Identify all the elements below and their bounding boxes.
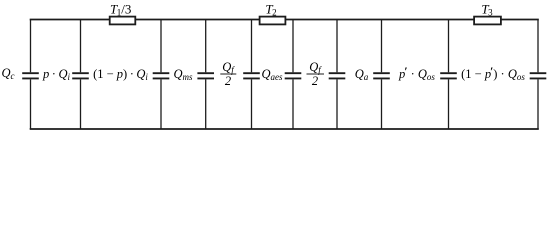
- capacitor Qc branch 1: [22, 20, 39, 130]
- capacitor p·Qi branch 2: [72, 20, 89, 130]
- capacitor Qa branch 8: [373, 20, 390, 130]
- capacitor Qaes branch 6: [285, 20, 302, 130]
- capacitor (1-p)·Qi branch 3: [153, 20, 170, 130]
- label fraction Qf/2 right: [307, 60, 325, 88]
- capacitor Qf/2 branch 5: [243, 20, 260, 130]
- resistor box T1/3: [110, 17, 136, 25]
- capacitor Qf/2 branch 7: [329, 20, 346, 130]
- capacitor (1-p')·Qos branch 10: [530, 20, 547, 130]
- wire bottom rail: [30, 128, 539, 130]
- label fraction Qf/2 left: [220, 60, 236, 88]
- svg-text:T1/3: T1/3: [110, 2, 131, 18]
- svg-text:(1 − p′) · Qos: (1 − p′) · Qos: [461, 64, 525, 82]
- wire top rail: [30, 19, 539, 21]
- svg-text:(1 − p) · Qi: (1 − p) · Qi: [93, 67, 148, 82]
- capacitor p'·Qos branch 9: [440, 20, 457, 130]
- capacitor Qms branch 4: [197, 20, 214, 130]
- svg-text:2: 2: [312, 74, 318, 88]
- svg-text:p · Qi: p · Qi: [42, 67, 70, 82]
- resistor box T2: [260, 17, 286, 25]
- resistor box T3: [474, 17, 501, 25]
- svg-text:2: 2: [225, 74, 231, 88]
